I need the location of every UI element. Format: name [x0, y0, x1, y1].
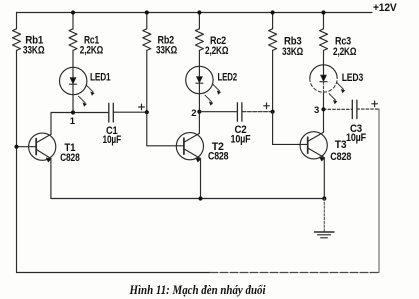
- junction dot C2/Rb3: [271, 110, 275, 114]
- wire T3 emitter to rail: [323, 158, 325, 199]
- wire emitter rail: [51, 198, 324, 200]
- plus C1: [139, 104, 145, 110]
- wire T2 emitter to rail: [200, 159, 202, 199]
- node 1: [71, 110, 75, 114]
- wire left rail (Rb1 column, down to bottom feedback): [16, 13, 18, 273]
- svg-text:33KΩ: 33KΩ: [156, 44, 177, 56]
- LED2: [186, 66, 221, 105]
- wire C1 to Rb2 junction: [113, 111, 147, 113]
- wire ground stem: [323, 199, 325, 232]
- svg-text:+12V: +12V: [373, 2, 397, 14]
- svg-text:LED2: LED2: [218, 72, 238, 84]
- svg-text:2,2KΩ: 2,2KΩ: [333, 46, 357, 58]
- svg-text:10µF: 10µF: [103, 134, 122, 146]
- svg-text:C828: C828: [208, 150, 228, 162]
- resistor Rb3: [269, 29, 277, 51]
- resistor Rc3: [320, 29, 328, 51]
- transistor T2: [176, 133, 203, 162]
- wire C3 to feedback corner (dashed): [357, 108, 379, 110]
- node 2: [197, 110, 201, 114]
- resistor Rc2: [195, 29, 203, 51]
- wire junction to T2 base: [147, 112, 184, 146]
- junction dot T2 emitter: [198, 196, 202, 200]
- transistor T1: [29, 133, 56, 162]
- capacitor C2: [237, 103, 242, 121]
- junction rail-Rb3: [271, 10, 275, 14]
- wire T1 emitter to rail: [50, 159, 52, 199]
- svg-text:1: 1: [70, 116, 76, 127]
- svg-text:2: 2: [191, 108, 196, 119]
- wire T2 collector to node 2: [198, 112, 201, 134]
- junction rail-Rc2: [197, 10, 201, 14]
- svg-text:10µF: 10µF: [231, 134, 251, 146]
- wire C2 to Rb3 junction: [242, 111, 273, 113]
- junction rail-Rc3: [321, 10, 325, 14]
- LED1: [59, 67, 94, 106]
- wire Rc2 column: [198, 13, 200, 112]
- junction rail-Rb2: [145, 10, 149, 14]
- svg-text:33KΩ: 33KΩ: [282, 46, 303, 58]
- wire T1 collector to node 1: [51, 113, 109, 135]
- wire Rb2 column: [146, 13, 148, 113]
- wire right feedback riser: [378, 109, 380, 273]
- svg-text:T3: T3: [335, 139, 347, 151]
- plus C3: [372, 101, 378, 107]
- wire node2 to C2: [199, 111, 237, 113]
- svg-text:C828: C828: [60, 152, 80, 164]
- svg-text:3: 3: [314, 105, 319, 116]
- wire Rb3 column: [272, 13, 274, 112]
- capacitor C1: [109, 103, 114, 122]
- ground: [315, 232, 335, 238]
- wire T1 base: [17, 146, 37, 148]
- junction dot C1/Rb2: [145, 110, 149, 114]
- plus C2: [264, 103, 270, 109]
- svg-text:Hình 11: Mạch đèn nháy đuổi: Hình 11: Mạch đèn nháy đuổi: [129, 283, 266, 297]
- LED3: [310, 65, 345, 104]
- svg-text:2,2KΩ: 2,2KΩ: [205, 45, 229, 57]
- wire +12V top rail: [17, 12, 373, 14]
- svg-text:C828: C828: [330, 151, 351, 163]
- svg-text:LED1: LED1: [90, 71, 111, 83]
- transistor T3: [300, 132, 327, 161]
- svg-text:2,2KΩ: 2,2KΩ: [80, 45, 104, 57]
- node 3: [321, 107, 325, 111]
- capacitor C3: [352, 100, 357, 118]
- wire Rc3 column: [323, 13, 325, 110]
- junction dot T3 emitter: [322, 196, 326, 200]
- wire T3 collector to node 3: [323, 109, 324, 133]
- svg-text:10µF: 10µF: [346, 132, 366, 144]
- resistor Rb1: [13, 29, 21, 51]
- junction rail-Rc1: [71, 10, 75, 14]
- resistor Rb2: [143, 29, 151, 51]
- svg-text:33KΩ: 33KΩ: [23, 45, 45, 57]
- wire junction to T3 base: [273, 112, 308, 145]
- resistor Rc1: [69, 29, 77, 51]
- svg-text:LED3: LED3: [342, 72, 363, 84]
- junction dot T1 base: [14, 145, 18, 149]
- wire node3 to C3 (dashed): [324, 108, 353, 110]
- wire bottom feedback rail: [17, 272, 211, 274]
- wire Rc1 column: [72, 13, 74, 113]
